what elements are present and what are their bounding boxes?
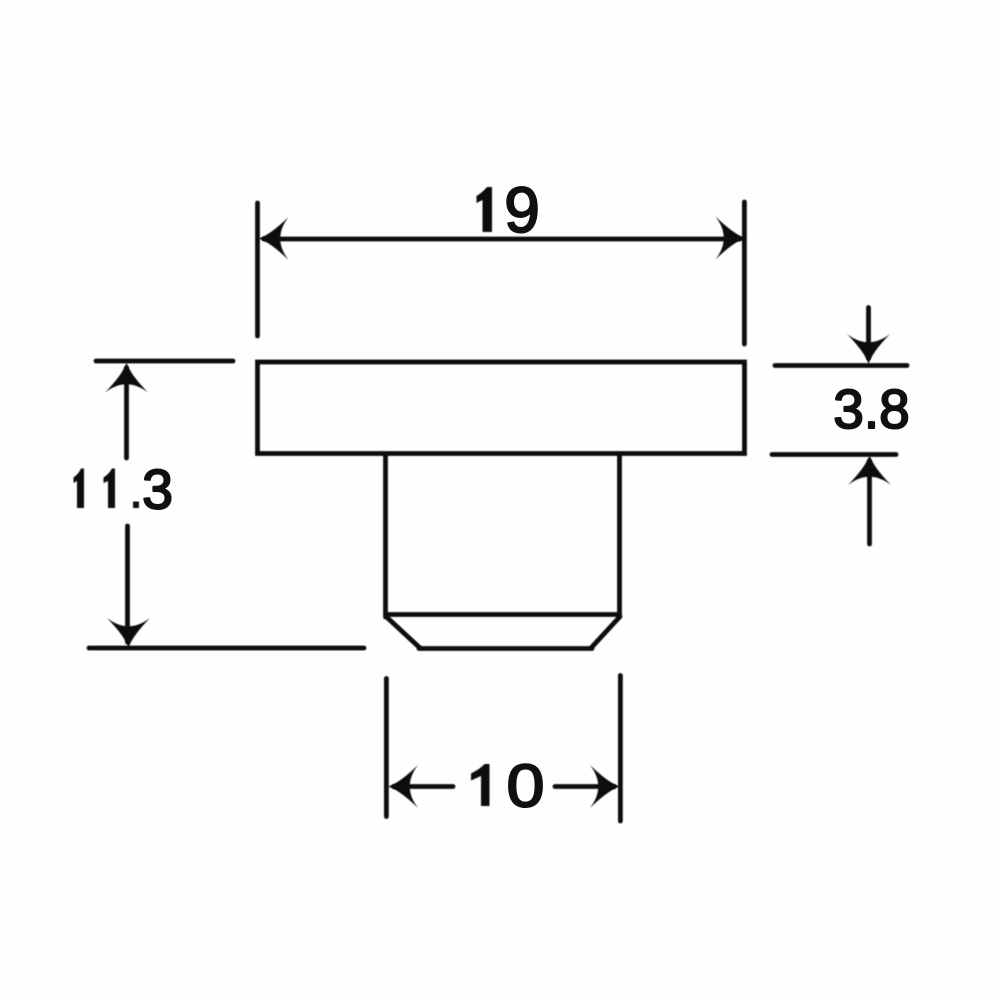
dim 10 right arrow shaft (555, 784, 614, 789)
dim 19 dimension line (264, 237, 740, 242)
flange rectangle (part body top) (258, 362, 745, 454)
dim 3.8 down arrowhead (847, 334, 890, 364)
svg-text:3: 3 (142, 459, 173, 521)
dim 10 left arrowhead (388, 765, 418, 808)
dim 19 left arrowhead (259, 217, 289, 260)
dim label 11.3 decimal point (133, 502, 139, 509)
dim 11.3 up arrowhead (105, 363, 148, 393)
dim label 19 digit 1 (477, 187, 493, 232)
dim 10 left extension line (384, 679, 389, 817)
stem bottom edge (419, 646, 592, 651)
dim 11.3 bottom leader line (89, 646, 364, 651)
dim 3.8 top leader line (775, 363, 907, 368)
dim 11.3 upper arrow shaft (124, 368, 129, 458)
dim 10 left arrow shaft (394, 784, 453, 789)
chamfer left slope (386, 617, 420, 649)
dim 19 left extension line (255, 203, 260, 336)
stem right wall (617, 456, 622, 617)
svg-text:0: 0 (507, 753, 545, 820)
dim 3.8 up arrowhead (848, 455, 891, 485)
dim label 11.3 digit 1b (104, 469, 116, 509)
svg-text:3.8: 3.8 (833, 378, 909, 440)
chamfer right slope (591, 617, 620, 649)
dim 11.3 top leader line (96, 359, 233, 364)
dim 10 right extension line (618, 676, 623, 822)
dim 3.8 lower arrow shaft (867, 461, 872, 544)
dim label 11.3 digit 1a (74, 469, 85, 509)
dim 3.8 upper arrow shaft (866, 308, 871, 359)
chamfer start line (388, 612, 617, 617)
dim 3.8 bottom leader line (772, 452, 896, 457)
dim 19 right extension line (742, 202, 747, 344)
dim label 10 digit 1 (471, 764, 490, 806)
dim 19 right arrowhead (716, 217, 746, 260)
dim 11.3 lower arrow shaft (125, 526, 130, 642)
dim 10 right arrowhead (590, 765, 620, 808)
dim 11.3 down arrowhead (107, 618, 150, 648)
svg-text:9: 9 (504, 174, 540, 246)
stem left wall (383, 456, 388, 617)
